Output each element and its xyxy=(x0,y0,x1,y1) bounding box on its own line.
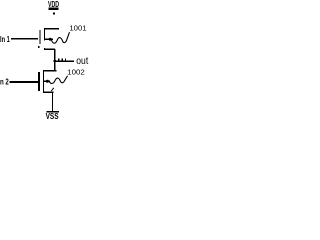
leader squiggle to 1001 xyxy=(51,32,69,43)
VSS rail bar xyxy=(46,111,59,113)
wire to out xyxy=(55,60,74,62)
VDD rail bar xyxy=(48,8,58,10)
junction dot on Q2 body lead xyxy=(46,80,49,83)
leader squiggle to 1002 xyxy=(49,76,67,84)
svg-text:VSS: VSS xyxy=(46,111,59,120)
junction dot on Q1 body lead xyxy=(49,38,52,41)
svg-text:1001: 1001 xyxy=(69,23,86,32)
transistor Q1 body lead xyxy=(44,39,53,40)
svg-text:In 1: In 1 xyxy=(0,34,10,44)
transistor Q1 gate bar upper xyxy=(39,30,40,44)
svg-text:out: out xyxy=(76,56,88,67)
svg-text:n 2: n 2 xyxy=(0,77,9,87)
wire output rail xyxy=(54,49,56,71)
wire VDD stub (broken dot) xyxy=(53,12,55,14)
transistor Q2 channel bar xyxy=(43,70,44,93)
transistor Q2 body lead xyxy=(44,81,51,82)
transistor Q2 (NMOS 1002) drain lead xyxy=(43,70,56,71)
junction out node xyxy=(54,60,56,62)
tick at NMOS source corner xyxy=(51,88,54,91)
svg-text:1002: 1002 xyxy=(67,68,85,77)
wire In 1 to gate xyxy=(11,38,38,40)
aliasing ticks above out wire xyxy=(58,59,59,61)
wire In 2 to gate xyxy=(10,81,38,83)
transistor Q1 (PMOS 1001) top source lead xyxy=(44,28,59,29)
transistor Q1 gate bar lower dash xyxy=(38,46,40,48)
transistor Q1 channel bar upper xyxy=(44,28,45,41)
transistor Q2 gate bar xyxy=(38,72,40,91)
transistor Q1 drain lead xyxy=(44,49,55,50)
transistor Q2 source lead xyxy=(43,91,53,93)
transistor Q1 channel bar lower stub xyxy=(44,48,45,50)
wire NMOS source to VSS xyxy=(52,92,53,111)
